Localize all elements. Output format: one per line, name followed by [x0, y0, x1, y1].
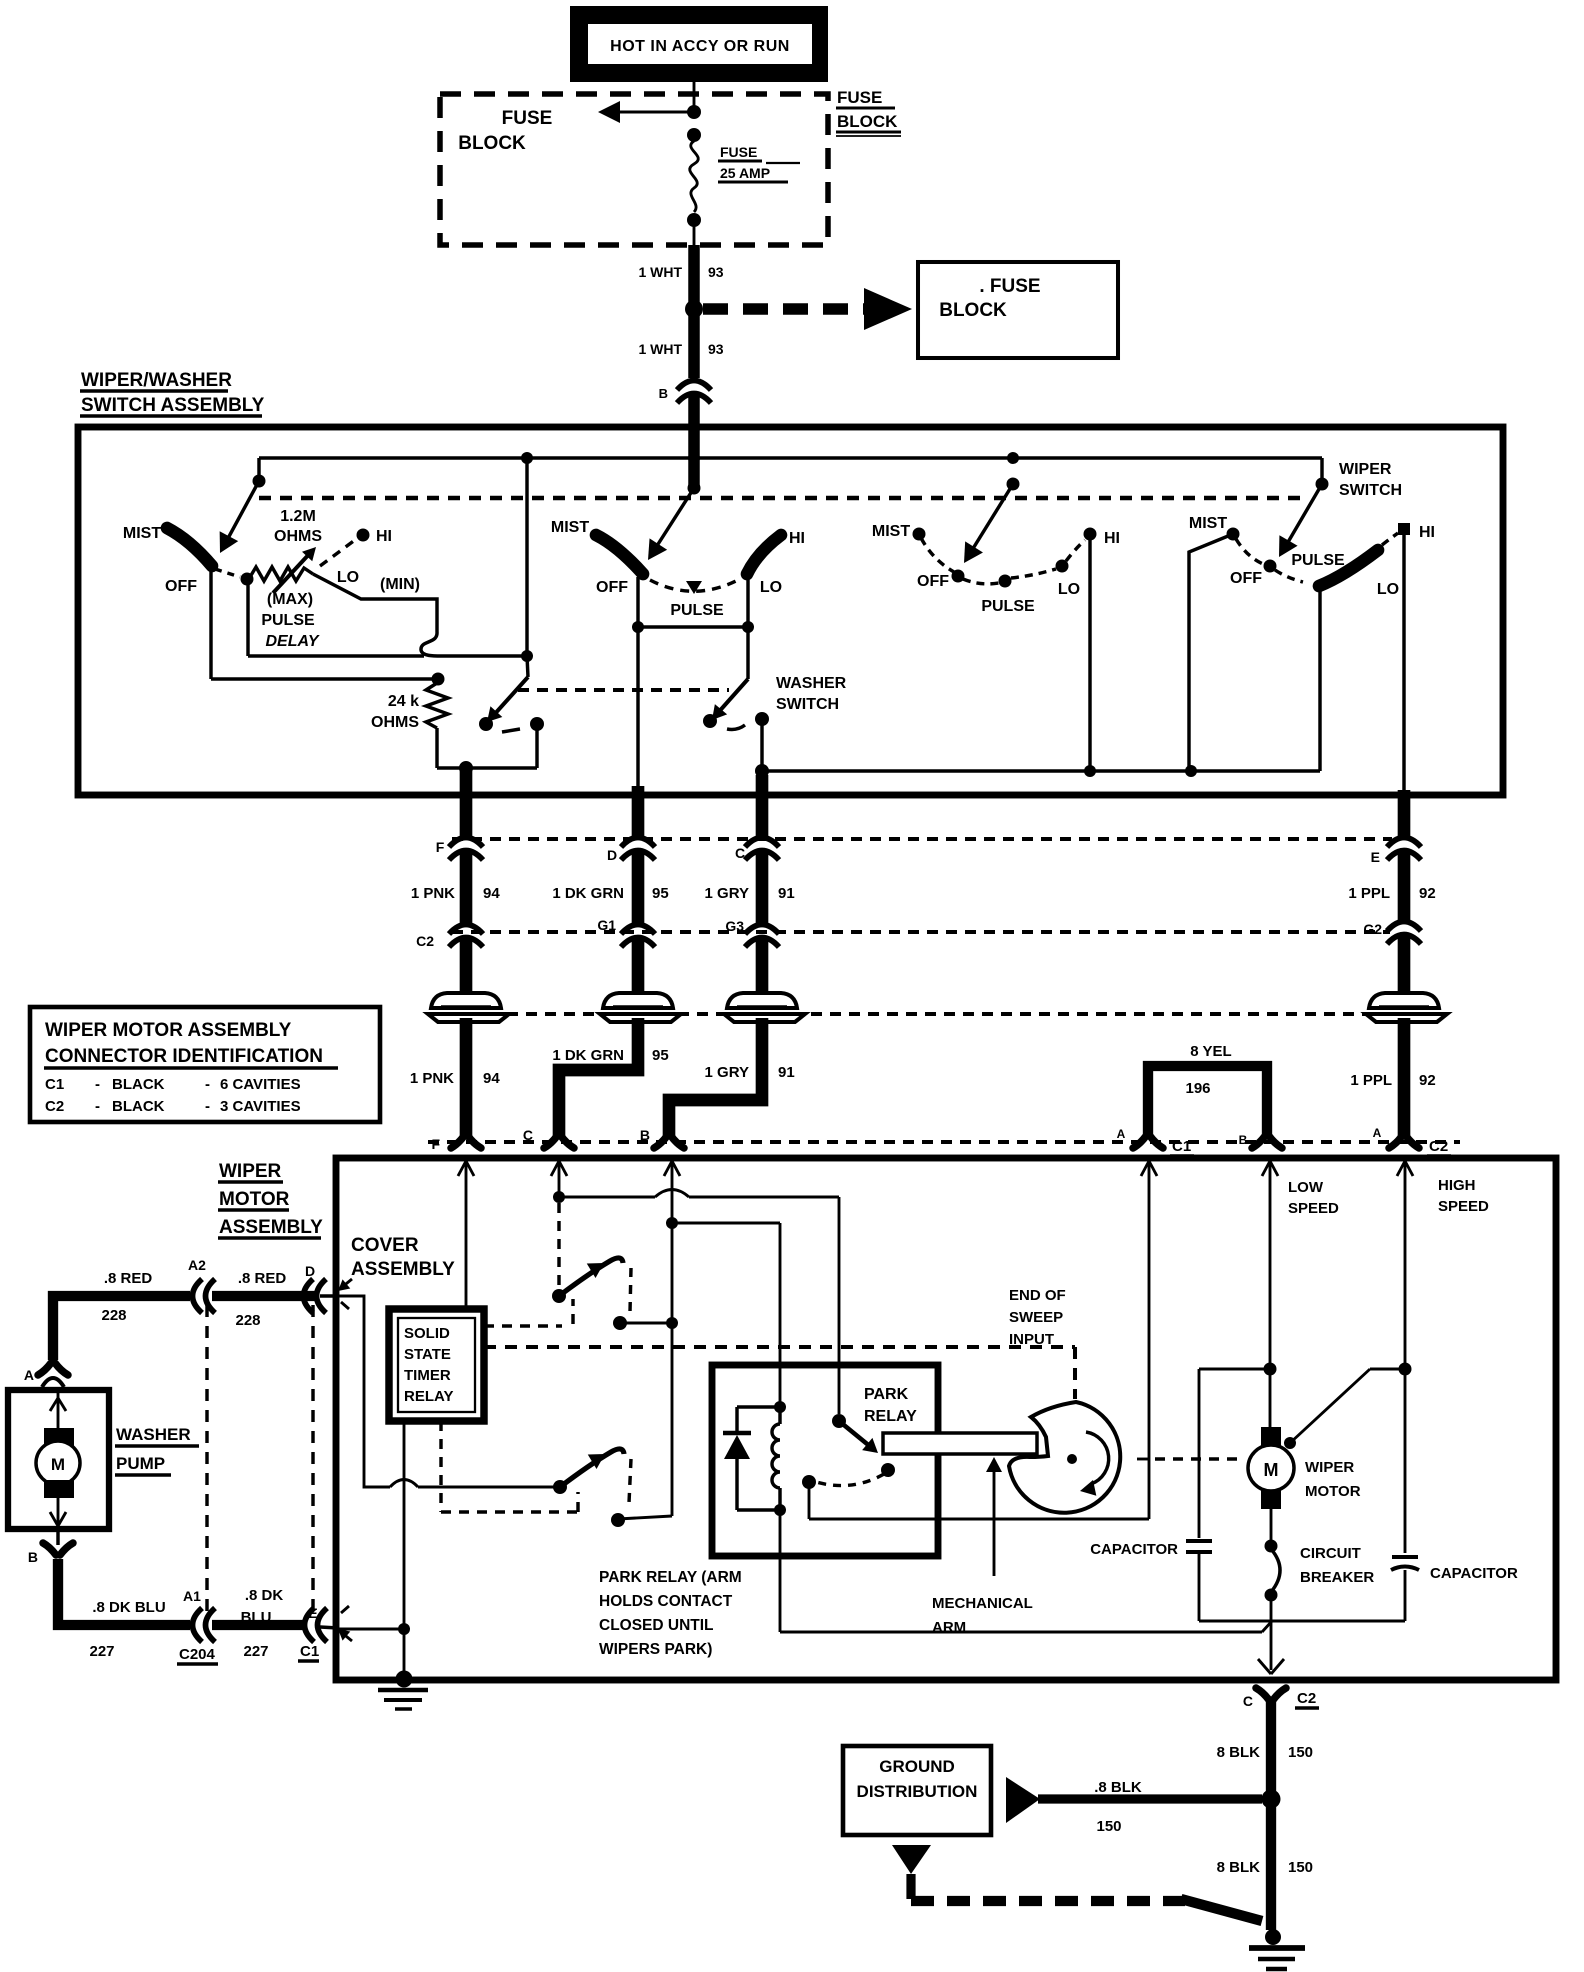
svg-text:FUSE: FUSE — [837, 88, 882, 107]
washer run switch arm SW-w — [560, 1449, 624, 1487]
switch S2 PULSE dashed sector — [650, 579, 740, 591]
svg-text:PULSE: PULSE — [670, 602, 724, 619]
svg-text:WIPERS PARK): WIPERS PARK) — [599, 1641, 712, 1658]
svg-text:-: - — [205, 1076, 210, 1093]
svg-text:1 WHT: 1 WHT — [638, 264, 682, 280]
terminal A of connector C2 — [1389, 1136, 1419, 1148]
svg-text:A: A — [1373, 1126, 1382, 1140]
svg-text:WIPER/WASHER: WIPER/WASHER — [81, 370, 232, 391]
variable resistor R1 1.2M OHMS (pulse delay) — [250, 567, 313, 581]
svg-text:150: 150 — [1096, 1818, 1121, 1835]
svg-text:SPEED: SPEED — [1288, 1200, 1339, 1217]
ground G2 — [1265, 1929, 1281, 1945]
svg-text:-: - — [205, 1098, 210, 1115]
svg-text:1 GRY: 1 GRY — [705, 885, 749, 902]
wiper motor assembly connector identification box — [30, 1007, 380, 1122]
svg-text:1 PNK: 1 PNK — [410, 1070, 454, 1087]
wire C jog to terminal B — [669, 1018, 762, 1136]
terminal B of connector C2 — [1252, 1136, 1282, 1148]
wire from pin A C2 (high speed) — [1397, 1161, 1405, 1176]
svg-text:PULSE: PULSE — [1291, 552, 1345, 569]
svg-text:PULSE: PULSE — [261, 612, 315, 629]
svg-text:CIRCUIT: CIRCUIT — [1300, 1545, 1361, 1562]
svg-text:OFF: OFF — [1230, 570, 1262, 587]
wire D / 1 DK GRN 95 — [632, 786, 645, 838]
switch S3 wiper arrow — [969, 484, 1013, 555]
switch S4 PULSE-LO contact segment — [1319, 550, 1378, 586]
svg-text:BLACK: BLACK — [112, 1098, 165, 1115]
svg-text:E: E — [1371, 849, 1380, 865]
svg-text:COVER: COVER — [351, 1235, 419, 1256]
svg-text:B: B — [28, 1549, 38, 1565]
washer output wire — [760, 719, 763, 771]
svg-text:A: A — [24, 1367, 34, 1383]
svg-text:(MIN): (MIN) — [380, 576, 420, 593]
capacitor C1 — [1186, 1539, 1212, 1543]
timer relay output lead (dashed) — [439, 1421, 442, 1512]
wire C to park relay arm (with crossover hop) — [559, 1196, 655, 1199]
switch S1 OFF wire — [209, 566, 212, 679]
wire from pin B C2 (low speed) — [1262, 1161, 1270, 1176]
jumper wire 8 YEL 196 — [1148, 1066, 1267, 1136]
svg-text:227: 227 — [89, 1643, 114, 1660]
svg-text:CONNECTOR IDENTIFICATION: CONNECTOR IDENTIFICATION — [45, 1046, 323, 1067]
svg-text:. FUSE: . FUSE — [979, 276, 1040, 297]
bus junction nodes — [521, 452, 533, 464]
svg-text:WASHER: WASHER — [776, 675, 847, 692]
svg-text:8 BLK: 8 BLK — [1217, 1859, 1261, 1876]
end-of-sweep wire to pin A C1 — [808, 1482, 811, 1519]
svg-text:PULSE: PULSE — [981, 598, 1035, 615]
cover assembly pointer arrows — [341, 1279, 352, 1288]
svg-text:HOT IN ACCY OR RUN: HOT IN ACCY OR RUN — [610, 38, 790, 55]
svg-text:.8 DK BLU: .8 DK BLU — [92, 1599, 165, 1616]
switch S2 HI-LO contact segment — [747, 535, 781, 574]
cam wheel center and rotation arrow — [1067, 1454, 1077, 1464]
wire from pin E to ground lead — [338, 1628, 404, 1631]
fuse block reference box — [918, 262, 1118, 358]
grommet row (dashed) — [431, 1012, 1445, 1016]
wiper motor connector row C1/C2 (dashed) — [428, 1140, 1460, 1144]
svg-text:1 WHT: 1 WHT — [638, 341, 682, 357]
bus horizontal wire — [259, 456, 1322, 459]
svg-text:BREAKER: BREAKER — [1300, 1569, 1374, 1586]
timer switch arm SW-t — [557, 1203, 560, 1289]
svg-text:B: B — [659, 386, 668, 401]
svg-text:1 PNK: 1 PNK — [411, 885, 455, 902]
wiper/washer switch assembly box — [78, 427, 1503, 795]
svg-text:LO: LO — [337, 569, 359, 586]
svg-text:92: 92 — [1419, 1072, 1436, 1089]
switch S2 wiper arrow — [653, 488, 694, 552]
svg-text:SWEEP: SWEEP — [1009, 1309, 1063, 1326]
capacitor common wire — [1199, 1620, 1405, 1623]
svg-text:FUSE: FUSE — [720, 144, 757, 160]
svg-text:SWITCH: SWITCH — [776, 696, 839, 713]
svg-text:150: 150 — [1288, 1744, 1313, 1761]
washer switch dashed gang link — [518, 688, 729, 692]
svg-text:94: 94 — [483, 885, 500, 902]
switch S3 HI wire — [1088, 534, 1091, 771]
svg-text:C1: C1 — [45, 1076, 64, 1093]
svg-text:MOTOR: MOTOR — [219, 1189, 290, 1210]
svg-text:91: 91 — [778, 1064, 795, 1081]
dashed feed to fuse block (arrow) — [703, 303, 864, 315]
svg-text:WIPER MOTOR ASSEMBLY: WIPER MOTOR ASSEMBLY — [45, 1020, 292, 1041]
svg-text:1 GRY: 1 GRY — [705, 1064, 749, 1081]
wire B to washer contact — [618, 1516, 672, 1519]
svg-text:BLU: BLU — [241, 1609, 272, 1626]
feed bus wire inside switch — [688, 430, 700, 487]
switch S4 HI wire (to pin E) — [1402, 533, 1405, 792]
svg-text:95: 95 — [652, 885, 669, 902]
svg-text:-: - — [95, 1098, 100, 1115]
svg-text:OFF: OFF — [917, 573, 949, 590]
motor ground wire to pin C C2 — [1270, 1621, 1273, 1670]
terminal A of connector C1 — [1133, 1136, 1163, 1148]
svg-text:MIST: MIST — [1189, 515, 1227, 532]
svg-text:PUMP: PUMP — [116, 1454, 165, 1473]
svg-text:OFF: OFF — [165, 578, 197, 595]
svg-text:TIMER: TIMER — [404, 1367, 451, 1384]
svg-text:HOLDS CONTACT: HOLDS CONTACT — [599, 1593, 733, 1610]
power source box HOT IN ACCY OR RUN — [570, 6, 828, 82]
dashed connector bodies C204 / C1 — [205, 1305, 208, 1615]
svg-text:BLACK: BLACK — [112, 1076, 165, 1093]
feed arrow to other fuses — [606, 111, 694, 114]
pulse jumper wire — [638, 625, 748, 628]
svg-text:8 BLK: 8 BLK — [1217, 1744, 1261, 1761]
svg-text:OHMS: OHMS — [371, 714, 419, 731]
svg-text:END OF: END OF — [1009, 1287, 1066, 1304]
timer relay ground lead — [403, 1421, 406, 1678]
wire D jog to terminal C — [559, 1018, 638, 1136]
svg-text:F: F — [431, 1136, 440, 1152]
wire B to park relay coil — [672, 1222, 780, 1225]
svg-text:LO: LO — [1377, 581, 1399, 598]
connector C1 pin D — [304, 1279, 314, 1313]
svg-text:OFF: OFF — [596, 579, 628, 596]
svg-text:OHMS: OHMS — [274, 528, 322, 545]
park relay coil L1 — [737, 1405, 780, 1408]
svg-text:.8 RED: .8 RED — [238, 1270, 287, 1287]
switch S3 LO contact — [1056, 560, 1069, 573]
svg-text:A1: A1 — [183, 1588, 201, 1604]
svg-text:M: M — [1264, 1460, 1279, 1480]
svg-text:B: B — [640, 1127, 650, 1143]
svg-text:6 CAVITIES: 6 CAVITIES — [220, 1076, 301, 1093]
wire .8 RED 228 (pump feed) — [53, 1296, 190, 1360]
svg-text:MECHANICAL: MECHANICAL — [932, 1595, 1033, 1612]
mechanical arm bar — [883, 1433, 1037, 1454]
svg-text:ARM: ARM — [932, 1619, 966, 1636]
svg-text:1 DK GRN: 1 DK GRN — [552, 1047, 624, 1064]
svg-text:C2: C2 — [45, 1098, 64, 1115]
svg-text:.8 BLK: .8 BLK — [1094, 1779, 1142, 1796]
mechanical cam wheel — [1009, 1402, 1120, 1513]
svg-text:C1: C1 — [300, 1643, 319, 1660]
wire C / 1 GRY 91 — [756, 775, 769, 838]
switch S3 PULSE contact — [999, 575, 1012, 588]
svg-text:CLOSED UNTIL: CLOSED UNTIL — [599, 1617, 714, 1634]
svg-text:SWITCH: SWITCH — [1339, 482, 1402, 499]
(MAX) tap wire loop — [246, 583, 249, 656]
svg-text:LO: LO — [1058, 581, 1080, 598]
svg-text:HI: HI — [1419, 524, 1435, 541]
terminal C of connector C2 — [1256, 1688, 1286, 1700]
svg-text:C2: C2 — [1297, 1690, 1316, 1707]
wire F / 1 PNK 94 — [460, 770, 473, 838]
svg-text:-: - — [95, 1076, 100, 1093]
svg-text:95: 95 — [652, 1047, 669, 1064]
wire from pin F into timer relay — [458, 1161, 466, 1176]
mechanical arm pointer — [993, 1463, 996, 1576]
svg-text:PARK RELAY (ARM: PARK RELAY (ARM — [599, 1569, 742, 1586]
motor brush wire to high speed — [1284, 1437, 1296, 1449]
svg-text:.8 DK: .8 DK — [245, 1587, 284, 1604]
svg-text:1 PPL: 1 PPL — [1350, 1072, 1392, 1089]
svg-text:D: D — [305, 1263, 315, 1279]
wire from HOT bus into fuse block — [693, 82, 696, 110]
wire bus to washer switch S1w — [525, 458, 528, 656]
wire from pin D to washer relay pivot — [338, 1296, 390, 1487]
svg-text:LOW: LOW — [1288, 1179, 1324, 1196]
capacitor C2 — [1392, 1555, 1418, 1559]
switch S2 LO wire — [746, 577, 749, 627]
svg-text:LO: LO — [760, 579, 782, 596]
dashed mechanical link wheel to motor — [1137, 1458, 1149, 1461]
svg-text:C: C — [1243, 1693, 1253, 1709]
svg-text:25 AMP: 25 AMP — [720, 165, 770, 181]
circuit breaker CB1 — [1270, 1509, 1273, 1543]
svg-text:CAPACITOR: CAPACITOR — [1430, 1565, 1518, 1582]
svg-text:150: 150 — [1288, 1859, 1313, 1876]
svg-text:G3: G3 — [725, 918, 744, 934]
svg-text:93: 93 — [708, 264, 724, 280]
svg-text:ASSEMBLY: ASSEMBLY — [351, 1259, 455, 1280]
switch S1 wiper node — [241, 573, 254, 586]
svg-text:MIST: MIST — [872, 523, 910, 540]
svg-text:DELAY: DELAY — [265, 633, 319, 650]
svg-text:C: C — [523, 1127, 533, 1143]
ground distribution box — [843, 1746, 991, 1835]
ground symbol G1 — [378, 1688, 428, 1693]
park relay K1 box — [712, 1365, 938, 1556]
switch S4 OFF contact — [1264, 560, 1277, 573]
switch S4 MIST wire — [1189, 534, 1233, 771]
timer switch contact wire — [620, 1322, 672, 1325]
svg-text:RELAY: RELAY — [864, 1408, 917, 1425]
svg-text:C2: C2 — [416, 933, 434, 949]
splice node S150 — [1262, 1790, 1281, 1809]
svg-text:C2: C2 — [1429, 1138, 1448, 1155]
svg-text:3 CAVITIES: 3 CAVITIES — [220, 1098, 301, 1115]
dashed link: timer relay to timer switch — [484, 1324, 562, 1327]
svg-text:91: 91 — [778, 885, 795, 902]
wiper motor M1 — [1261, 1427, 1281, 1446]
svg-text:BLOCK: BLOCK — [837, 112, 898, 131]
terminal F of connector C1 — [451, 1136, 481, 1148]
fuse F1 25 AMP — [687, 128, 701, 142]
svg-text:STATE: STATE — [404, 1346, 451, 1363]
svg-text:A2: A2 — [188, 1257, 206, 1273]
svg-text:INPUT: INPUT — [1009, 1331, 1054, 1348]
ganged-switch dashed link line — [259, 496, 1303, 501]
splice node S1 — [685, 300, 703, 318]
park relay diode D1 — [735, 1407, 738, 1433]
svg-text:196: 196 — [1185, 1080, 1210, 1097]
washer switch S1w arm — [527, 656, 528, 677]
wire 8 BLK 150 (upper) — [1266, 1700, 1276, 1930]
svg-text:8 YEL: 8 YEL — [1190, 1043, 1231, 1060]
svg-text:GROUND: GROUND — [879, 1757, 955, 1776]
switch S1 HI contact — [320, 540, 355, 566]
wire .8 DK BLU 227 — [58, 1559, 190, 1625]
svg-text:WIPER: WIPER — [1339, 461, 1392, 478]
washer switch S2w arm — [746, 627, 749, 679]
switch S1 wiper arrow — [226, 481, 259, 542]
switch S4 LO wire — [1318, 587, 1321, 771]
svg-text:B: B — [1239, 1133, 1248, 1147]
park relay coil return wire — [779, 1510, 782, 1632]
svg-text:PARK: PARK — [864, 1386, 909, 1403]
svg-text:C1: C1 — [1172, 1138, 1191, 1155]
switch S4 HI contact — [1398, 523, 1410, 535]
svg-text:HI: HI — [376, 528, 392, 545]
svg-text:DISTRIBUTION: DISTRIBUTION — [857, 1782, 978, 1801]
wire from pin C — [551, 1161, 559, 1176]
svg-text:SWITCH ASSEMBLY: SWITCH ASSEMBLY — [81, 395, 265, 416]
connector row C2xx (dashed) — [452, 837, 1392, 841]
wire to washer contact — [437, 766, 537, 769]
node / junction in fuse block — [687, 105, 701, 119]
svg-text:RELAY: RELAY — [404, 1388, 453, 1405]
svg-text:BLOCK: BLOCK — [939, 300, 1007, 321]
svg-text:D: D — [607, 847, 617, 863]
dashed end-of-sweep signal line — [484, 1345, 1075, 1349]
svg-text:MOTOR: MOTOR — [1305, 1483, 1361, 1500]
svg-text:BLOCK: BLOCK — [458, 133, 526, 154]
svg-text:1.2M: 1.2M — [280, 508, 316, 525]
svg-text:SOLID: SOLID — [404, 1325, 450, 1342]
svg-text:M: M — [51, 1455, 65, 1474]
svg-text:HI: HI — [789, 530, 805, 547]
park relay armature — [832, 1414, 846, 1428]
wire from pin B — [664, 1161, 672, 1176]
svg-text:228: 228 — [101, 1307, 126, 1324]
svg-text:C204: C204 — [179, 1646, 216, 1663]
svg-text:SPEED: SPEED — [1438, 1198, 1489, 1215]
washer pump motor — [8, 1390, 109, 1529]
switch S3 HI contact — [1084, 528, 1097, 541]
svg-text:HI: HI — [1104, 530, 1120, 547]
svg-text:92: 92 — [1419, 885, 1436, 902]
switch S3 OFF contact — [952, 570, 965, 583]
wire 1 WHT 93 (upper) — [688, 245, 700, 305]
fuse block (dashed outline) — [440, 94, 828, 245]
resistor R2 24 k OHMS — [426, 683, 448, 728]
svg-text:1 PPL: 1 PPL — [1348, 885, 1390, 902]
svg-text:CAPACITOR: CAPACITOR — [1090, 1541, 1178, 1558]
wire 1 WHT 93 (lower) — [688, 313, 700, 378]
svg-text:WASHER: WASHER — [116, 1425, 191, 1444]
svg-text:HIGH: HIGH — [1438, 1177, 1476, 1194]
wire .8 BLK 150 to ground distribution — [1038, 1794, 1262, 1803]
svg-text:WIPER: WIPER — [1305, 1459, 1354, 1476]
wire: resistor MIN tap — [313, 574, 527, 656]
switch S4 wiper arrow — [1284, 484, 1322, 549]
svg-text:93: 93 — [708, 341, 724, 357]
svg-text:MIST: MIST — [551, 519, 589, 536]
svg-text:(MAX): (MAX) — [267, 591, 313, 608]
svg-text:24 k: 24 k — [388, 693, 419, 710]
connector row G1/G3/G2 (dashed) — [452, 930, 1390, 934]
svg-text:1 DK GRN: 1 DK GRN — [552, 885, 624, 902]
svg-text:A: A — [1117, 1127, 1126, 1141]
terminal B of connector C1 — [654, 1136, 684, 1148]
wiper motor assembly box — [336, 1158, 1556, 1680]
solid state timer relay U1 — [389, 1309, 484, 1421]
svg-text:MIST: MIST — [123, 525, 161, 542]
svg-text:G1: G1 — [597, 917, 616, 933]
svg-text:227: 227 — [243, 1643, 268, 1660]
svg-text:G2: G2 — [1363, 921, 1382, 937]
wire E / 1 PPL 92 — [1398, 790, 1411, 838]
svg-text:228: 228 — [235, 1312, 260, 1329]
ground distribution dashed ground path — [892, 1845, 931, 1874]
svg-text:ASSEMBLY: ASSEMBLY — [219, 1217, 323, 1238]
connector C1 pin E — [305, 1608, 315, 1642]
capacitor C1 branch wire — [1199, 1368, 1270, 1371]
switch S2 OFF wire — [636, 577, 639, 627]
svg-text:F: F — [436, 839, 445, 855]
svg-text:94: 94 — [483, 1070, 500, 1087]
svg-text:FUSE: FUSE — [502, 108, 553, 129]
svg-text:.8 RED: .8 RED — [104, 1270, 153, 1287]
terminal C of connector C1 — [544, 1136, 574, 1148]
svg-text:WIPER: WIPER — [219, 1161, 282, 1182]
